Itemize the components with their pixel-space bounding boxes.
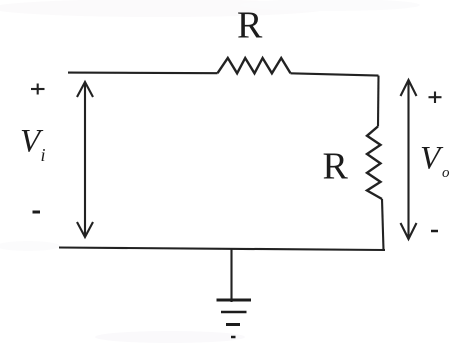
svg-text:R: R [323,146,349,188]
svg-text:R: R [237,5,263,47]
svg-text:i: i [41,145,46,165]
svg-text:o: o [442,165,450,181]
